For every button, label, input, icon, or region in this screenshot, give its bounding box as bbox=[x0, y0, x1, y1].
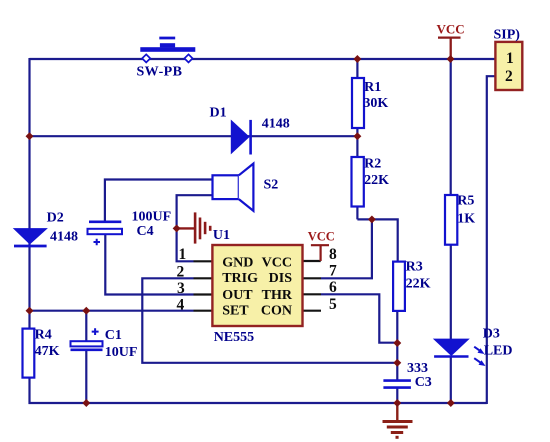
svg-text:22K: 22K bbox=[406, 277, 431, 292]
wire GND pin1 to speaker bbox=[177, 195, 213, 261]
wire THR pin6 bbox=[321, 294, 397, 342]
wire R5 to LED anode bbox=[450, 245, 452, 340]
diode D1 bbox=[231, 120, 250, 155]
svg-text:R1: R1 bbox=[364, 80, 381, 95]
svg-text:22K: 22K bbox=[364, 173, 389, 188]
wire OUT pin3 to C4 bbox=[105, 234, 193, 294]
wire R2 to R3 link bbox=[357, 219, 397, 261]
pin 8 stub bbox=[303, 260, 321, 262]
svg-text:6: 6 bbox=[329, 279, 337, 296]
svg-text:D2: D2 bbox=[47, 211, 64, 226]
svg-text:SIP): SIP) bbox=[494, 28, 521, 43]
svg-text:7: 7 bbox=[329, 263, 337, 280]
junction node ground U1 bbox=[173, 224, 181, 232]
pin 2 stub bbox=[194, 277, 213, 279]
svg-text:R3: R3 bbox=[406, 260, 423, 275]
power VCC at pin 8 bbox=[308, 230, 335, 261]
svg-text:1: 1 bbox=[506, 50, 514, 67]
junction node R1 bottom bbox=[353, 132, 361, 140]
ground bottom bbox=[383, 403, 413, 437]
wire left rail bbox=[28, 58, 30, 404]
svg-text:C4: C4 bbox=[137, 224, 154, 239]
capacitor C4 bbox=[88, 222, 123, 245]
svg-text:1K: 1K bbox=[457, 211, 475, 226]
junction node C1 top bbox=[82, 307, 90, 315]
svg-text:4: 4 bbox=[177, 297, 185, 314]
junction node R1 top bbox=[353, 55, 361, 63]
svg-text:SET: SET bbox=[222, 304, 249, 319]
svg-text:47K: 47K bbox=[35, 344, 60, 359]
svg-text:2: 2 bbox=[177, 263, 185, 280]
pin 1 stub bbox=[194, 260, 213, 262]
wire speaker top to C4 bbox=[105, 180, 213, 222]
wire C1 branch top bbox=[85, 311, 87, 342]
resistor R5 bbox=[445, 195, 457, 245]
wire TRIG long pin2 bbox=[142, 278, 397, 363]
pin 4 stub bbox=[194, 310, 213, 312]
svg-text:R2: R2 bbox=[364, 156, 381, 171]
resistor R1 bbox=[352, 78, 364, 128]
svg-text:THR: THR bbox=[262, 288, 293, 303]
svg-text:R4: R4 bbox=[35, 327, 52, 342]
pin 3 stub bbox=[194, 293, 213, 295]
wire bottom rail bbox=[29, 402, 487, 404]
speaker S2 bbox=[213, 164, 254, 211]
switch SW-PB bbox=[140, 38, 195, 62]
svg-text:D1: D1 bbox=[210, 106, 227, 121]
wire top rail bbox=[30, 58, 496, 60]
IC U1 NE555 box bbox=[212, 245, 302, 326]
junction node C1 bottom bbox=[82, 399, 90, 407]
wire C3 to bottom rail bbox=[396, 388, 398, 403]
junction node R2 bottom bbox=[368, 215, 376, 223]
svg-text:GND: GND bbox=[222, 255, 253, 270]
wire R2 branch bbox=[356, 136, 358, 219]
LED D3 bbox=[434, 339, 485, 366]
svg-text:2: 2 bbox=[505, 68, 513, 85]
diode D2 bbox=[14, 229, 47, 246]
svg-text:4148: 4148 bbox=[50, 229, 78, 244]
capacitor C3 bbox=[383, 381, 411, 388]
svg-text:C3: C3 bbox=[415, 375, 432, 390]
svg-text:5: 5 bbox=[329, 296, 337, 313]
resistor R4 bbox=[23, 329, 35, 378]
svg-text:DIS: DIS bbox=[269, 271, 293, 286]
svg-text:C1: C1 bbox=[105, 328, 122, 343]
resistor R3 bbox=[393, 262, 405, 311]
svg-text:10UF: 10UF bbox=[105, 345, 138, 360]
junction node D1 left bbox=[26, 132, 34, 140]
svg-text:LED: LED bbox=[484, 344, 513, 359]
wire right rail to SIP pin 2 bbox=[487, 76, 496, 404]
wire VCC to R5 bbox=[450, 59, 452, 195]
wire LED cathode bbox=[450, 358, 452, 404]
svg-text:CON: CON bbox=[261, 304, 292, 319]
junction node TRIG C3 bbox=[393, 359, 401, 367]
wire R1 branch bbox=[356, 59, 358, 136]
wire R3 bottom bbox=[396, 311, 398, 343]
svg-text:NE555: NE555 bbox=[214, 330, 254, 345]
svg-text:VCC: VCC bbox=[262, 255, 292, 270]
svg-text:4148: 4148 bbox=[262, 116, 290, 131]
svg-text:U1: U1 bbox=[213, 228, 230, 243]
wire D1 row bbox=[30, 135, 358, 137]
svg-text:VCC: VCC bbox=[308, 230, 335, 244]
svg-text:SW-PB: SW-PB bbox=[137, 64, 183, 79]
power VCC top bbox=[437, 22, 465, 59]
wire R3 C3 node bbox=[396, 343, 398, 380]
pin 5 stub bbox=[303, 310, 322, 312]
junction node LED bottom bbox=[447, 399, 455, 407]
wire C1 branch bottom bbox=[85, 350, 87, 403]
svg-text:OUT: OUT bbox=[222, 288, 253, 303]
svg-text:VCC: VCC bbox=[437, 22, 465, 37]
SIP connector box bbox=[495, 42, 522, 90]
svg-text:30K: 30K bbox=[363, 96, 388, 111]
svg-text:3: 3 bbox=[177, 280, 185, 297]
junction node R3 bottom bbox=[393, 339, 401, 347]
svg-text:1: 1 bbox=[179, 246, 187, 263]
junction node VCC top bbox=[447, 55, 455, 63]
svg-text:R5: R5 bbox=[457, 193, 474, 208]
capacitor C1 bbox=[71, 328, 103, 350]
junction node SET left bbox=[26, 307, 34, 315]
junction node C3 bottom bbox=[393, 399, 401, 407]
wire SET row pin4 bbox=[30, 310, 194, 312]
resistor R2 bbox=[352, 157, 364, 207]
svg-text:TRIG: TRIG bbox=[222, 271, 258, 286]
wire DIS pin7 bbox=[321, 218, 372, 278]
svg-text:D3: D3 bbox=[483, 326, 500, 341]
pin 7 stub bbox=[303, 277, 322, 279]
svg-text:8: 8 bbox=[329, 246, 337, 263]
ground at U1 sideways bbox=[177, 212, 211, 243]
svg-text:S2: S2 bbox=[264, 177, 279, 192]
pin 6 stub bbox=[303, 293, 322, 295]
svg-text:100UF: 100UF bbox=[132, 209, 172, 224]
